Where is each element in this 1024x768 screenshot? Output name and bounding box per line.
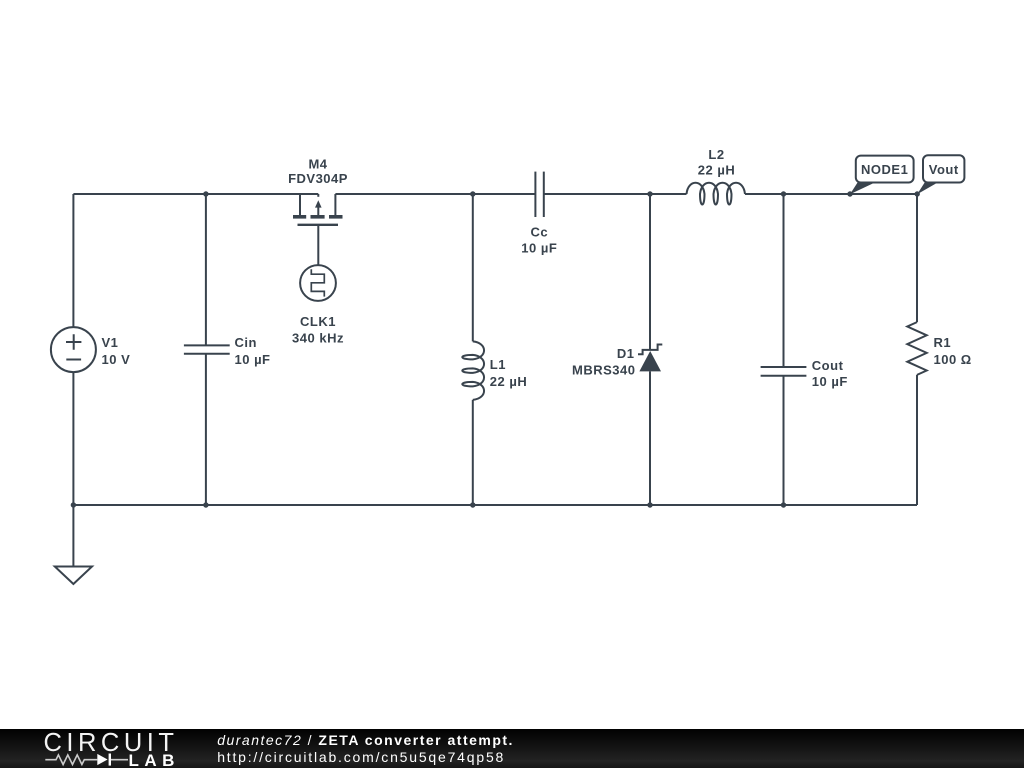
svg-text:http://circuitlab.com/cn5u5qe7: http://circuitlab.com/cn5u5qe74qp58 bbox=[217, 749, 505, 765]
svg-text:M4: M4 bbox=[308, 157, 327, 172]
voltage source V1 bbox=[51, 327, 96, 372]
svg-text:NODE1: NODE1 bbox=[861, 162, 908, 177]
ground bbox=[55, 567, 92, 585]
D1 cathode bar bbox=[638, 345, 662, 355]
wire Cin upper lead bbox=[205, 194, 207, 345]
svg-text:V1: V1 bbox=[102, 335, 119, 350]
svg-text:L1: L1 bbox=[490, 357, 506, 372]
capacitor Cin bbox=[184, 345, 230, 353]
capacitor Cc bbox=[535, 172, 543, 217]
wire left rail V1 lower lead bbox=[72, 372, 74, 505]
footer bar bbox=[0, 729, 1024, 768]
transistor M4 (PMOS) bbox=[293, 194, 343, 265]
resistor R1 bbox=[907, 322, 926, 375]
net flag Vout bbox=[917, 155, 964, 194]
label L1 bbox=[490, 357, 527, 389]
wire L1 lower lead bbox=[472, 400, 474, 505]
wire Cin lower lead bbox=[205, 354, 207, 505]
svg-text:D1: D1 bbox=[617, 346, 635, 361]
svg-text:340 kHz: 340 kHz bbox=[292, 330, 344, 345]
wire R1 upper lead bbox=[916, 194, 918, 322]
wire D1 anode lead bbox=[649, 371, 651, 505]
clock source CLK1 bbox=[300, 265, 336, 301]
label M4 bbox=[288, 157, 348, 187]
wire top rail from M4 drain to Cc left plate bbox=[335, 193, 535, 195]
wire Cout lower lead bbox=[783, 376, 785, 505]
wire R1 lower lead bbox=[916, 375, 918, 505]
svg-text:10 µF: 10 µF bbox=[521, 240, 557, 255]
svg-text:LAB: LAB bbox=[129, 751, 180, 768]
logo resistor-diode glyph bbox=[45, 755, 128, 765]
svg-text:10 µF: 10 µF bbox=[235, 352, 271, 367]
svg-text:durantec72 / ZETA converter at: durantec72 / ZETA converter attempt. bbox=[217, 732, 514, 748]
svg-text:Cc: Cc bbox=[530, 224, 548, 239]
capacitor Cout bbox=[761, 367, 807, 376]
label R1 bbox=[934, 335, 972, 367]
svg-text:22 µH: 22 µH bbox=[698, 163, 735, 178]
M4 body arrow bbox=[315, 200, 322, 207]
inductor L2 bbox=[687, 183, 746, 205]
label L2 bbox=[698, 147, 735, 178]
wire from L2 right terminal to Vout corner bbox=[745, 193, 917, 195]
inductor L1 bbox=[462, 341, 484, 400]
net flag NODE1 bbox=[850, 156, 914, 195]
wire left rail V1 upper lead bbox=[72, 194, 74, 327]
junction dots top rail bbox=[203, 191, 920, 196]
wire D1 cathode lead bbox=[649, 194, 651, 350]
svg-text:Vout: Vout bbox=[929, 162, 959, 177]
svg-text:FDV304P: FDV304P bbox=[288, 171, 348, 186]
svg-text:R1: R1 bbox=[934, 335, 952, 350]
label CLK1 bbox=[292, 314, 344, 345]
label Cin bbox=[235, 335, 271, 367]
wire ground stub bbox=[72, 505, 74, 567]
label Cc bbox=[521, 224, 557, 255]
wire L1 upper lead bbox=[472, 194, 474, 341]
wire bottom rail bbox=[73, 504, 917, 506]
junction dots bottom rail bbox=[71, 502, 787, 507]
label V1 bbox=[102, 335, 131, 367]
svg-text:22 µH: 22 µH bbox=[490, 374, 527, 389]
wire top rail from V1 to M4 source bbox=[73, 193, 318, 195]
svg-text:L2: L2 bbox=[708, 147, 724, 162]
svg-text:CLK1: CLK1 bbox=[300, 314, 336, 329]
diode D1 (Schottky) bbox=[639, 351, 661, 371]
logo diode symbol bbox=[97, 754, 111, 766]
wire from Cc right plate to L2 left terminal bbox=[544, 193, 687, 195]
label Cout bbox=[812, 358, 848, 389]
wire Cout upper lead bbox=[783, 194, 785, 367]
svg-text:10 µF: 10 µF bbox=[812, 374, 848, 389]
svg-text:10 V: 10 V bbox=[102, 352, 131, 367]
svg-text:Cin: Cin bbox=[235, 335, 257, 350]
svg-text:MBRS340: MBRS340 bbox=[572, 362, 635, 377]
svg-text:Cout: Cout bbox=[812, 358, 844, 373]
label D1 bbox=[572, 346, 635, 378]
svg-text:100 Ω: 100 Ω bbox=[934, 352, 972, 367]
